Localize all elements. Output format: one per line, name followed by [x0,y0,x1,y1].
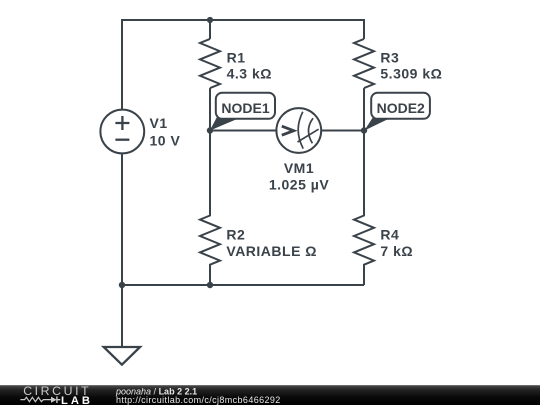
svg-text:10 V: 10 V [150,133,181,149]
svg-text:V1: V1 [150,115,168,131]
resistor R1 [200,39,220,88]
wire top rail (V1 top to R3 top) [122,20,364,110]
ground [104,347,140,365]
wire R3 to NODE2 [363,88,365,130]
svg-text:R2: R2 [226,227,245,243]
wire R1 top lead [209,20,211,39]
svg-text:R1: R1 [227,49,246,65]
junction dot NODE2 [361,127,367,133]
resistor R3 [354,39,374,88]
CircuitLab logo diode [51,397,57,403]
junction dot bottom left [119,282,125,288]
junction dot top [207,17,213,23]
resistor R2 with leads [200,131,220,286]
VM1 meter arc left [298,112,303,149]
node label NODE2 box [371,93,430,119]
NODE1 pointer tail [210,118,241,131]
node label NODE1 box [216,93,275,119]
svg-text:R3: R3 [380,49,399,65]
svg-text:NODE1: NODE1 [221,100,269,116]
wire VM1 to NODE2 [321,130,364,132]
svg-text:R4: R4 [380,227,399,243]
wire NODE1 to VM1 [210,130,276,132]
svg-text:LAB: LAB [61,395,93,405]
svg-text:4.3 kΩ: 4.3 kΩ [227,66,272,82]
svg-text:1.025 µV: 1.025 µV [269,177,329,193]
VM1 chevron [282,126,294,135]
junction dot R2 bottom [207,282,213,288]
svg-text:http://circuitlab.com/c/cj8mcb: http://circuitlab.com/c/cj8mcb6466292 [116,395,281,405]
svg-text:7 kΩ: 7 kΩ [380,243,413,259]
CircuitLab logo schematic line with resistor [20,397,51,401]
svg-text:5.309 kΩ: 5.309 kΩ [380,66,442,82]
VM1 needle [298,129,319,142]
VM1 meter arc right [308,118,313,143]
NODE2 pointer tail [364,118,391,131]
voltage source V1 circle [100,110,144,154]
wire bottom rail [122,284,364,286]
svg-text:VM1: VM1 [284,160,314,176]
CircuitLab logo diode cathode and line [57,396,60,403]
wire to ground [121,285,123,347]
wire R1 to NODE1 [209,88,211,130]
svg-text:NODE2: NODE2 [377,100,425,116]
wire V1 to bottom rail [121,153,123,285]
resistor R4 with leads [354,131,374,286]
voltmeter VM1 circle [276,108,321,153]
footer bar [0,385,540,405]
V1 minus sign [115,139,129,141]
junction dot NODE1 [207,127,213,133]
V1 plus sign [115,116,129,130]
svg-text:VARIABLE Ω: VARIABLE Ω [226,243,317,259]
